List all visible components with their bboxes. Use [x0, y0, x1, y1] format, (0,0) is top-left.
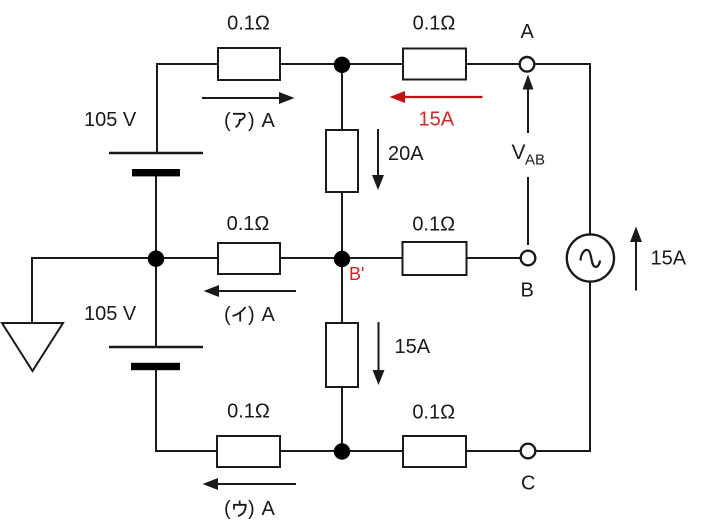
resistor 0.1ohm line-C left — [217, 436, 280, 467]
wire load resistor 2 down to node N3 — [341, 387, 343, 451]
junction node B' on neutral — [334, 251, 350, 267]
current label (ア) A — [224, 110, 276, 132]
wire line-A right resistor to terminal A — [466, 63, 520, 65]
svg-text:A: A — [262, 498, 276, 520]
svg-text:): ) — [248, 304, 255, 326]
wire load resistor 1 down to node B' — [341, 192, 343, 259]
wire right vertical corner down to AC source top — [589, 63, 591, 235]
junction node N3 on line-C — [334, 443, 350, 459]
AC source U1 circle — [567, 234, 614, 281]
svg-text:20A: 20A — [388, 143, 424, 165]
voltage label V_AB — [512, 141, 546, 169]
wire terminal C to right corner — [535, 450, 590, 452]
wire neutral between resistor and node B' — [280, 257, 342, 259]
resistor 0.1ohm neutral left — [218, 243, 280, 274]
svg-text:A: A — [521, 21, 535, 43]
svg-text:(: ( — [224, 304, 231, 326]
wire top-left horizontal (battery bus to R line-A left) — [157, 63, 218, 65]
wire node N1 down to load resistor 1 — [341, 64, 343, 130]
svg-text:105 V: 105 V — [84, 109, 137, 131]
current arrow 15A red leftward on line-A — [390, 91, 483, 103]
wire node N0 left toward ground — [32, 257, 156, 259]
battery E2 105V negative plate — [131, 363, 180, 370]
current label (イ) A — [224, 304, 276, 326]
terminal C circle — [521, 444, 536, 459]
svg-text:0.1Ω: 0.1Ω — [227, 13, 270, 35]
voltage arrow V_AB pointing up toward A — [523, 75, 534, 246]
svg-text:V: V — [512, 141, 526, 164]
current arrow (ア) rightward on line-A — [202, 92, 295, 104]
svg-text:15A: 15A — [395, 336, 431, 358]
svg-text:B': B' — [349, 264, 364, 284]
junction node N1 on line-A — [334, 57, 350, 73]
svg-text:15A: 15A — [651, 248, 687, 270]
wire node N0 down to battery E2 plus plate — [155, 259, 157, 347]
battery E1 105V positive plate — [109, 152, 203, 154]
terminal A circle — [520, 57, 535, 72]
svg-text:A: A — [262, 304, 276, 326]
junction node N0 on left bus — [148, 251, 164, 267]
svg-text:(: ( — [224, 498, 231, 520]
wire battery E1 minus plate down to node N0 — [155, 176, 157, 259]
svg-text:): ) — [248, 498, 255, 520]
wire neutral between node N0 and left resistor — [156, 257, 218, 259]
svg-text:): ) — [248, 110, 255, 132]
load resistor lower (15A branch) — [326, 323, 358, 387]
current arrow 20A downward — [372, 129, 384, 190]
wire bottom-left horizontal to R line-C left — [155, 450, 217, 452]
wire terminal A to right corner — [534, 63, 590, 65]
wire neutral between node B' and right resistor — [342, 257, 403, 259]
wire left bus top (line-A down to battery E1 plus plate) — [156, 63, 158, 153]
current arrow 15A downward lower branch — [373, 322, 385, 385]
svg-text:A: A — [262, 110, 276, 132]
current arrow (イ) leftward on neutral — [204, 285, 297, 297]
battery E1 105V negative plate — [132, 169, 180, 176]
wire neutral right resistor to terminal B — [466, 257, 521, 259]
svg-text:15A: 15A — [419, 109, 455, 131]
resistor 0.1ohm line-C right — [403, 436, 466, 467]
resistor 0.1ohm neutral right — [403, 242, 467, 275]
svg-text:AB: AB — [525, 152, 545, 169]
wire node B' down to load resistor 2 — [341, 259, 343, 323]
battery E2 105V positive plate — [109, 346, 203, 348]
current label (ウ) A — [224, 498, 276, 520]
wire line-C between left resistor and node N3 — [280, 450, 342, 452]
svg-text:(: ( — [224, 110, 231, 132]
resistor 0.1ohm line-A right — [403, 49, 466, 80]
AC source U1 sine symbol — [581, 250, 601, 267]
wire line-A between node N1 and right resistor — [342, 63, 403, 65]
current arrow 15A upward beside AC source — [630, 227, 642, 291]
ground symbol — [2, 323, 63, 371]
current arrow (ウ) leftward on line-C — [203, 478, 297, 490]
svg-text:C: C — [521, 473, 535, 495]
svg-text:B: B — [521, 280, 534, 302]
svg-text:0.1Ω: 0.1Ω — [227, 213, 270, 235]
wire battery E2 minus plate down to bottom corner — [155, 370, 157, 451]
resistor 0.1ohm line-A left — [218, 48, 280, 80]
svg-text:0.1Ω: 0.1Ω — [412, 214, 455, 236]
wire line-A between left resistor and node N1 — [280, 63, 342, 65]
svg-text:0.1Ω: 0.1Ω — [227, 401, 270, 423]
wire line-C right resistor to terminal C — [466, 450, 521, 452]
wire ground drop vertical — [31, 257, 33, 323]
svg-text:105 V: 105 V — [84, 303, 137, 325]
svg-text:0.1Ω: 0.1Ω — [412, 402, 455, 424]
terminal B circle — [521, 251, 536, 266]
wire right vertical AC source bottom down to line-C corner — [589, 282, 591, 453]
svg-text:0.1Ω: 0.1Ω — [413, 13, 456, 35]
load resistor upper (20A branch) — [326, 130, 358, 192]
wire line-C between node N3 and right resistor — [342, 450, 403, 452]
